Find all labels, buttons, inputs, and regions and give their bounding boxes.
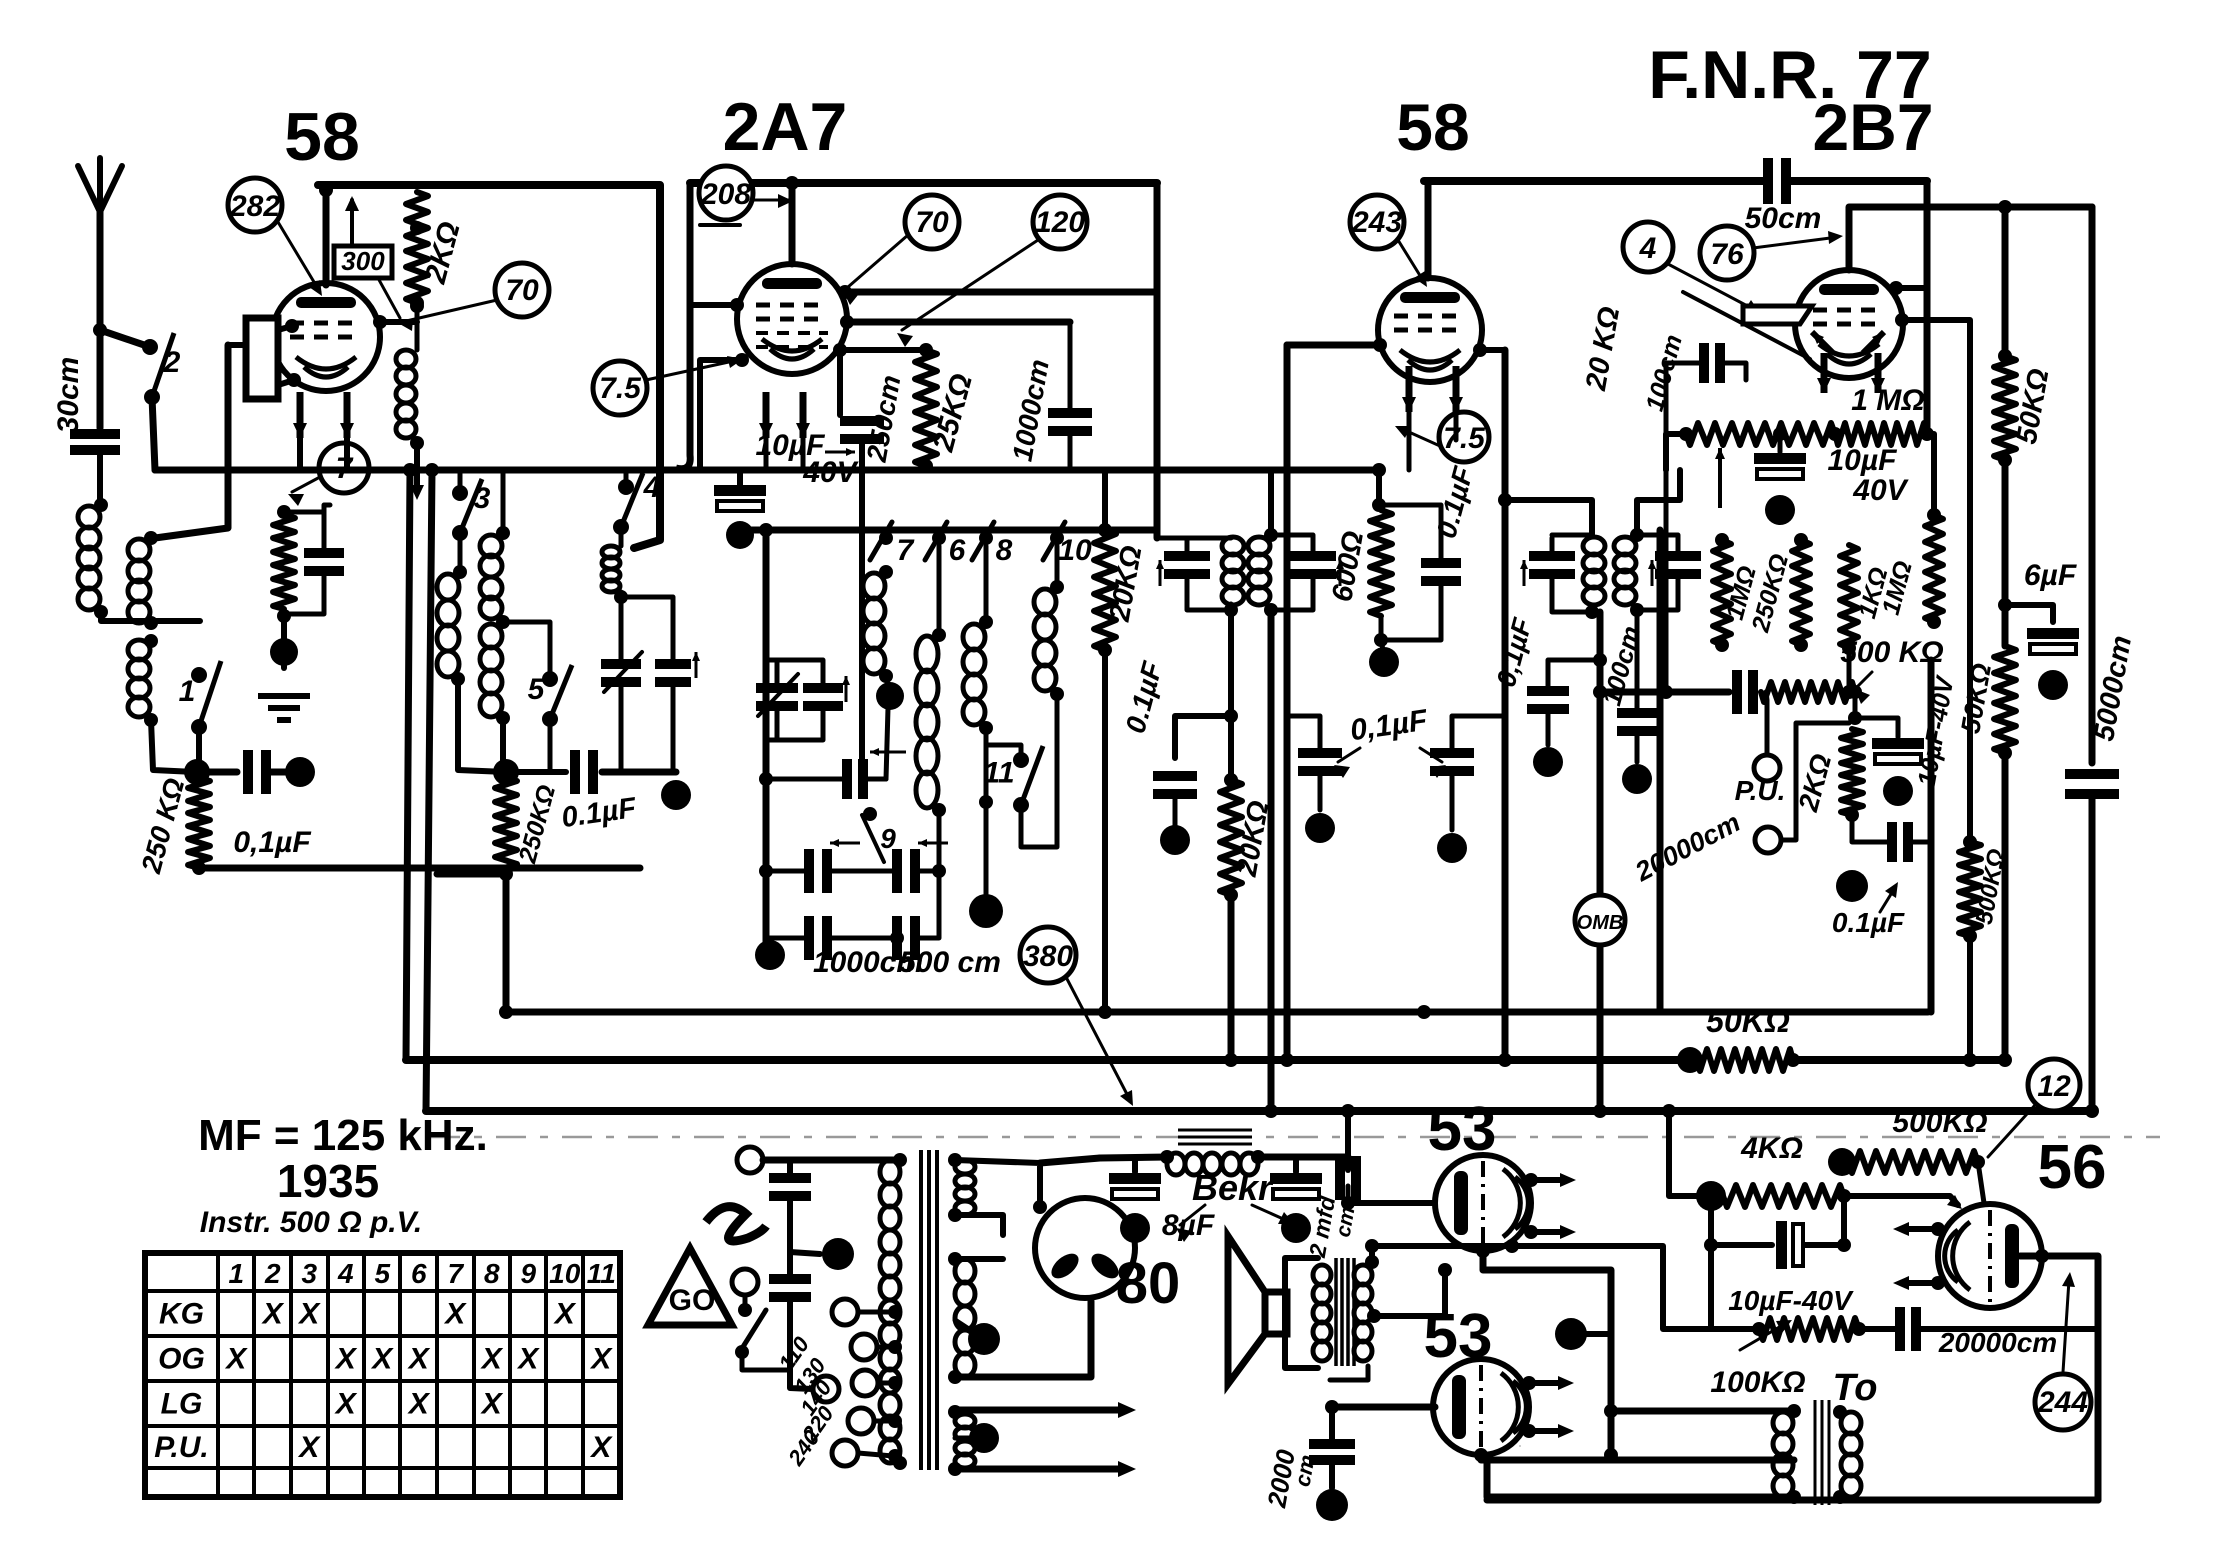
coil osc 8 <box>963 546 993 735</box>
label 20K ohm pot <box>1580 304 1626 394</box>
callout 244 <box>2035 1272 2091 1430</box>
svg-text:100KΩ: 100KΩ <box>1710 1366 1805 1399</box>
wire pots joint <box>1848 692 1862 725</box>
callout 70 stage2 <box>843 195 959 305</box>
svg-text:500 cm: 500 cm <box>899 946 1001 979</box>
callout 7.5 stage2 <box>593 356 743 415</box>
svg-text:10µF: 10µF <box>1828 444 1898 477</box>
capacitor 0.1uF band <box>575 750 593 794</box>
secondary HV top <box>948 1153 975 1222</box>
svg-text:53: 53 <box>1428 1095 1497 1164</box>
wire cap to coil L1 <box>94 451 108 512</box>
mains cap 1 <box>769 1160 811 1252</box>
wire 5000cm bottom <box>2089 795 2096 1111</box>
wire 8 to 11 <box>979 728 1021 809</box>
terminal osc bottom left <box>755 940 785 970</box>
svg-text:11: 11 <box>983 757 1014 790</box>
callout 7 cathode <box>288 443 369 506</box>
svg-text:8: 8 <box>484 1258 500 1289</box>
resistor 250K ohm V4 <box>1792 533 1810 652</box>
wire 20K AVC down <box>1228 895 1235 1060</box>
wire det line <box>1593 685 1729 699</box>
coil L5 band <box>437 533 467 686</box>
wire junction to cap 0.1 <box>197 769 237 776</box>
wire 500K right bottom <box>1967 936 1973 1060</box>
resistor 250K ohm input <box>188 778 210 875</box>
label 1000cm s2 <box>1006 357 1054 464</box>
label 1000cm osc <box>813 946 923 979</box>
callout 12 <box>1988 1059 2080 1157</box>
ground <box>258 696 310 720</box>
resistor 50K bus <box>1677 1047 1800 1073</box>
label 1935 <box>277 1155 379 1207</box>
resistor 20K ohm s2 <box>1094 470 1116 1012</box>
wire IF2 prim down <box>1224 610 1238 723</box>
wire pot left <box>1666 434 1686 470</box>
resistor 50K a <box>1994 349 2016 467</box>
label 50K bus <box>1706 1003 1790 1039</box>
svg-text:X: X <box>370 1343 394 1376</box>
callout 70 stage1 <box>398 263 549 331</box>
wire bias verticals <box>1711 1196 1844 1329</box>
osc cap fixed <box>803 676 850 706</box>
IF3 primary cap <box>1520 538 1575 604</box>
svg-text:244: 244 <box>2037 1386 2088 1419</box>
label 500K right <box>1971 847 2011 927</box>
label Instr 500 <box>200 1206 422 1239</box>
IF3 secondary cap <box>1637 535 1701 610</box>
wire V2 left grid <box>690 298 744 312</box>
vert join <box>1604 1288 1618 1462</box>
wire 11 bottom <box>1021 694 1057 847</box>
osc trimmer variable <box>756 674 798 716</box>
svg-text:4: 4 <box>337 1258 354 1289</box>
ecap 10uF 40V V4 <box>1754 427 1806 525</box>
mains fuse squiggle <box>706 1207 766 1241</box>
resistor 1M ohm a <box>1713 533 1731 652</box>
wire plate V3 to cap <box>1504 300 1506 350</box>
pin arrows V4 inner <box>1812 332 1884 353</box>
mains cap 2 <box>769 1252 812 1389</box>
svg-text:X: X <box>297 1298 321 1331</box>
node osc bottom <box>969 802 1003 928</box>
pin arrows V2 <box>759 392 810 438</box>
capacitor 100cm det <box>1617 610 1657 794</box>
label 2mfd <box>1304 1193 1360 1260</box>
coil L6 band <box>480 470 510 619</box>
stage2 top bus <box>690 179 1157 187</box>
IF2 primary coil <box>1157 537 1244 617</box>
wire V2 cathode left <box>700 353 749 470</box>
wire 1970 vertical <box>1963 434 1977 849</box>
svg-text:7.5: 7.5 <box>1443 422 1486 455</box>
title F.N.R. 77 <box>1648 37 1931 113</box>
svg-text:2: 2 <box>163 346 181 379</box>
bus A right <box>1793 1056 2005 1064</box>
wire 53b bottom L <box>1487 1460 1794 1497</box>
svg-text:70: 70 <box>505 274 539 307</box>
heater centertap 2 <box>955 1423 999 1453</box>
capacitor 0.1uF det <box>1527 653 1607 777</box>
wire 53a grid <box>1341 1196 1437 1210</box>
node grid bus end <box>1372 463 1386 512</box>
stage3 top bus <box>1424 177 1763 185</box>
long vertical V2 bus <box>425 463 439 1111</box>
svg-text:40V: 40V <box>1852 474 1909 507</box>
capacitor 0.1uF input <box>248 750 266 794</box>
bus junction dots <box>499 1005 2099 1118</box>
antenna <box>78 158 122 428</box>
stage3 top bus right <box>1791 177 1927 185</box>
svg-text:8µF: 8µF <box>1162 1209 1215 1242</box>
pin arrows V1 <box>293 392 354 438</box>
tube label 2B7 (V4) <box>1812 90 1933 164</box>
wire 6uF stub <box>2005 605 2053 622</box>
coil L6b lower half <box>480 615 510 725</box>
terminal after 0.1uF <box>268 757 315 787</box>
svg-text:P.U.: P.U. <box>1735 775 1786 806</box>
wire L6 bottom to junction <box>500 718 506 772</box>
node junction band <box>493 759 519 785</box>
primary tap 110 <box>832 1299 902 1325</box>
wire 1Mb top <box>1927 434 1934 515</box>
callout 380 <box>1020 927 1133 1106</box>
wire 250K band bottom <box>437 874 506 1012</box>
wire IF3 top to plate <box>1498 493 1592 535</box>
svg-text:X: X <box>589 1343 613 1376</box>
wire IF2 sec down <box>1268 610 1275 1111</box>
svg-text:X: X <box>407 1388 431 1421</box>
wire 50K b bottom <box>2002 753 2009 1060</box>
svg-text:120: 120 <box>1035 206 1085 239</box>
bottom bus out <box>1487 1497 2098 1504</box>
resistor 500K right <box>1959 842 1981 943</box>
capacitor 0.1uF AVC a <box>1287 716 1342 843</box>
mains terminal low <box>813 1376 839 1402</box>
label 250cm <box>861 373 907 465</box>
label 4K <box>1740 1132 1803 1165</box>
wire switch1 to junction <box>196 727 202 772</box>
pin arrows V3 <box>1402 366 1463 412</box>
svg-text:X: X <box>480 1388 504 1421</box>
label 250K V4 <box>1746 551 1794 636</box>
svg-text:5: 5 <box>528 673 546 706</box>
svg-text:3: 3 <box>301 1258 317 1289</box>
wire V4 right inner vertical <box>1928 660 1935 1012</box>
capacitor antenna series <box>70 434 120 450</box>
wire V2 grid2 right <box>838 285 1157 299</box>
capacitor 20000cm <box>1737 670 1753 714</box>
stage4 left edge vertical <box>1657 530 1664 1012</box>
wire grid box to tube <box>228 319 301 387</box>
label 2K ohm screen <box>419 218 467 287</box>
wire 53b bottom <box>1474 1446 1794 1462</box>
svg-text:10µF-40V: 10µF-40V <box>1728 1285 1854 1316</box>
trimmer cap variable <box>601 652 642 772</box>
label MF 125kHz <box>198 1111 488 1160</box>
coil osc 6 <box>916 538 946 817</box>
wire IF3 sec up <box>1637 470 1680 535</box>
tap labels <box>774 1332 840 1471</box>
wire V1 topcap <box>319 183 333 285</box>
svg-text:4: 4 <box>643 471 661 504</box>
capacitor 0.1uF IF2 <box>1153 776 1197 855</box>
svg-text:Bekr: Bekr <box>1192 1167 1274 1208</box>
svg-text:0,1µF: 0,1µF <box>233 826 311 859</box>
wire 50K mid <box>1998 460 2012 646</box>
switch contact 6 <box>925 522 966 567</box>
label 0.1uF IF2 <box>1120 658 1169 737</box>
arrows 53b <box>1522 1376 1574 1438</box>
svg-text:11: 11 <box>587 1258 616 1289</box>
svg-text:3: 3 <box>474 482 491 515</box>
stage3 left vertical <box>1284 345 1291 1060</box>
capacitor 10uF 40V <box>840 421 884 762</box>
wire L3 to junction <box>151 720 195 772</box>
svg-text:50cm: 50cm <box>1745 202 1822 235</box>
label Bekr <box>1192 1167 1274 1208</box>
svg-text:MF = 125 kHz.: MF = 125 kHz. <box>198 1111 488 1160</box>
label 1M b <box>1877 558 1918 618</box>
svg-text:9: 9 <box>520 1258 536 1289</box>
coil L2 secondary top <box>128 531 158 630</box>
resistor 1M ohm b <box>1925 508 1943 629</box>
primary tap 130 <box>851 1334 902 1360</box>
svg-text:10: 10 <box>1058 534 1092 567</box>
To transformer core <box>1815 1400 1829 1505</box>
ecap 10uF bias <box>1704 1221 1851 1269</box>
label 50K a <box>2011 366 2056 447</box>
wire otrafo bottom <box>1330 1366 1368 1380</box>
tube V2 2A7 <box>737 264 847 374</box>
label 30cm <box>52 357 85 434</box>
faint fold line <box>430 1136 2160 1139</box>
switch contact 8 <box>972 522 1013 567</box>
node pins V2 bus <box>766 438 803 470</box>
ecap 2 V4 <box>1855 718 1924 806</box>
wire 4K to grid <box>1844 1195 1962 1209</box>
wire 1K bottom <box>1842 648 1856 699</box>
wire HV lower <box>955 1215 1003 1235</box>
long vertical V1 bus <box>403 463 417 1060</box>
svg-text:To: To <box>1832 1367 1877 1409</box>
secondary heater main <box>948 1405 975 1476</box>
svg-text:OMB: OMB <box>1577 912 1624 934</box>
terminal 600 ohm <box>1369 640 1399 677</box>
primary tap 220 <box>848 1408 902 1434</box>
svg-text:X: X <box>553 1298 577 1331</box>
svg-text:X: X <box>516 1343 540 1376</box>
tube label 58 (V3) <box>1396 90 1469 164</box>
right rail top <box>1998 200 2012 356</box>
svg-text:12: 12 <box>2037 1070 2071 1103</box>
pin arrows V4 <box>1817 353 1885 393</box>
label 250 K ohm <box>135 775 190 877</box>
ecap 8uF b <box>1270 1157 1322 1243</box>
resistor 2K ohm V4 <box>1841 729 1863 822</box>
svg-text:4KΩ: 4KΩ <box>1740 1132 1803 1165</box>
svg-text:7: 7 <box>447 1258 464 1289</box>
label 2000cm b <box>1261 1447 1320 1511</box>
svg-text:20000cm: 20000cm <box>1938 1327 2057 1358</box>
svg-text:LG: LG <box>161 1388 203 1421</box>
label To <box>1832 1367 1877 1409</box>
switch contact 7 <box>870 522 915 567</box>
cap 2mfd <box>1340 1104 1356 1203</box>
node osc 7 bottom <box>876 676 904 779</box>
svg-text:6µF: 6µF <box>2024 559 2077 592</box>
wire heater80 top <box>955 1256 1003 1262</box>
wire cap to trimmer node <box>602 769 676 776</box>
callout OMB <box>1575 895 1625 945</box>
ecap cathode V2 <box>714 470 766 549</box>
switch 9 <box>862 807 896 862</box>
tube V4 2B7 <box>1795 270 1903 378</box>
tube V3 58 <box>1378 278 1482 382</box>
secondary heater80 <box>948 1252 975 1384</box>
ecap 6uF <box>2027 628 2079 700</box>
bottom line stage4 <box>506 1009 1928 1016</box>
resistor 2K ohm screen <box>406 192 428 310</box>
label 500K ohm pot <box>1840 636 1943 704</box>
callout 76 <box>1700 226 1843 280</box>
coil L7 osc small <box>602 527 628 664</box>
rail 5000cm <box>2089 207 2096 763</box>
wire switch2 down to grid bus <box>152 397 155 470</box>
wire 25K top <box>840 347 926 353</box>
label 10uF 40V V4 <box>1828 444 1910 507</box>
svg-text:7: 7 <box>897 534 915 567</box>
transformer core <box>921 1150 937 1470</box>
label 10uF 40V <box>756 429 860 489</box>
wire V4 right 2 <box>1895 313 1970 434</box>
cap row2 right <box>827 871 939 960</box>
svg-text:76: 76 <box>1710 238 1744 271</box>
output transformer core <box>1336 1258 1354 1366</box>
svg-text:56: 56 <box>2038 1133 2107 1202</box>
node V1 pin bus <box>300 438 347 470</box>
cap 2000cm b <box>1309 1407 1355 1521</box>
wire stage2 bottom box <box>792 466 1070 470</box>
wire osc trimmer top <box>766 660 823 688</box>
svg-text:1935: 1935 <box>277 1155 379 1207</box>
ecap 8uF a <box>1109 1158 1161 1243</box>
cap row1 left <box>759 839 860 893</box>
label 2K V4 <box>1792 751 1837 816</box>
wire V2 anode down <box>833 343 847 415</box>
switch contact 10 <box>1043 522 1092 567</box>
svg-text:2A7: 2A7 <box>723 89 848 165</box>
svg-text:9: 9 <box>880 823 896 854</box>
svg-text:1 MΩ: 1 MΩ <box>1851 384 1924 417</box>
resistor 500K out <box>1828 1148 1985 1176</box>
label 25K ohm <box>926 370 978 455</box>
wire antenna to switch 2 <box>93 323 157 354</box>
callout 208 <box>699 166 793 225</box>
capacitor coupling top <box>1768 158 1786 204</box>
wire V3 topcap <box>1425 181 1432 278</box>
callout 7.5 stage3 <box>1395 412 1489 462</box>
pot bias <box>1752 1318 1866 1340</box>
svg-text:X: X <box>443 1298 467 1331</box>
label 1M a <box>1721 563 1762 623</box>
svg-text:300: 300 <box>341 246 385 276</box>
wire V4 right top <box>1889 181 1927 434</box>
label 53 a <box>1428 1095 1497 1164</box>
tube V8 56 <box>1938 1204 2042 1308</box>
wire grid lead down to L2 <box>155 345 228 538</box>
switch 1 <box>179 661 221 735</box>
label 50K b <box>1955 661 1997 736</box>
To transformer left coil <box>1773 1404 1801 1504</box>
svg-text:P.U.: P.U. <box>154 1431 208 1464</box>
wire 0.1uF IF down <box>1175 716 1231 758</box>
wire OMB vertical <box>1592 612 1600 1111</box>
capacitor 0.1uF cath3 <box>1379 505 1461 640</box>
label 0.1uF band <box>560 792 640 834</box>
mains terminal mid <box>732 1269 758 1317</box>
IF3 primary coil <box>1552 535 1605 619</box>
IF2 primary cap <box>1164 538 1210 604</box>
heater arrow bottom <box>955 1461 1136 1477</box>
cap row1 right <box>827 810 948 893</box>
label 100K <box>1710 1366 1805 1399</box>
svg-text:X: X <box>589 1431 613 1464</box>
svg-text:6: 6 <box>411 1258 427 1289</box>
IF3 secondary coil <box>1614 528 1644 617</box>
PU terminal 2 <box>1755 723 1849 853</box>
wire otrafo tap <box>1367 1263 1452 1323</box>
resistor 4K <box>1696 1181 1851 1211</box>
arrows 53a <box>1524 1173 1576 1239</box>
capacitor 100cm V4 <box>1666 343 1746 692</box>
svg-text:208: 208 <box>700 178 751 211</box>
capacitor 5000cm <box>2065 774 2119 794</box>
mains terminal top <box>737 1147 900 1173</box>
svg-text:4: 4 <box>1639 232 1657 265</box>
svg-text:X: X <box>480 1343 504 1376</box>
resistor 25K ohm <box>915 343 937 473</box>
tube V6 53 <box>1435 1155 1531 1251</box>
svg-text:X: X <box>297 1431 321 1464</box>
label 0.1uF V4 <box>1832 882 1905 938</box>
wire V2 grid4 right <box>840 315 1070 329</box>
wire V3 pins bus <box>1409 412 1456 470</box>
speaker <box>1228 1236 1287 1384</box>
label 0.1uF AVC <box>1334 704 1446 778</box>
svg-text:243: 243 <box>1351 206 1402 239</box>
primary tap 140 <box>852 1370 902 1396</box>
wire IF2 sec up <box>1268 470 1274 535</box>
tube V5 80 <box>1035 1198 1135 1298</box>
wire To right bottom <box>1838 1497 1843 1500</box>
coil osc 10 <box>1034 546 1064 701</box>
label 100cm V4 <box>1641 332 1688 414</box>
svg-text:OG: OG <box>158 1343 205 1376</box>
IF2 prim join <box>1156 560 1231 610</box>
svg-text:X: X <box>261 1298 285 1331</box>
coil L1 antenna primary <box>78 506 100 610</box>
wire V2 topcap <box>785 176 799 264</box>
svg-text:X: X <box>334 1388 358 1421</box>
switch table <box>145 1253 620 1497</box>
wire HV to 80 grid <box>955 1160 1047 1214</box>
capacitor 0.1uF V4 <box>1836 815 1931 902</box>
wire 53a cathode <box>1476 1244 1611 1288</box>
capacitor 1000cm s2 <box>1048 322 1092 470</box>
output transformer left coil <box>1313 1265 1331 1361</box>
svg-text:50KΩ: 50KΩ <box>1706 1003 1790 1039</box>
